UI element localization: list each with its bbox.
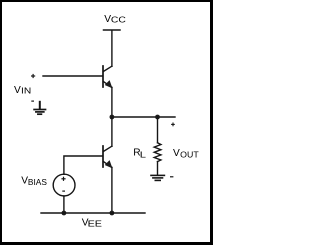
label VCC xyxy=(104,14,126,25)
label + (VOUT positive) xyxy=(171,123,175,127)
node junction RL top xyxy=(155,115,160,120)
wire VEE rail xyxy=(41,212,145,214)
label + (VIN positive) xyxy=(31,74,35,78)
wire Q2 emitter to VEE rail xyxy=(111,167,113,213)
wire output node to VOUT terminal xyxy=(112,116,175,118)
node junction Q1 emitter / Q2 collector xyxy=(110,115,115,120)
svg-text:IN: IN xyxy=(21,87,31,96)
transistor Q1 xyxy=(103,66,112,88)
label VEE xyxy=(82,218,102,229)
node junction VBIAS / VEE xyxy=(62,211,67,216)
svg-text:CC: CC xyxy=(111,15,126,24)
wire Q1 emitter to output node xyxy=(111,87,113,117)
svg-text:OUT: OUT xyxy=(180,151,199,160)
svg-text:L: L xyxy=(140,150,147,159)
ground (output, under RL) xyxy=(151,175,164,180)
node junction Q2 emitter / VEE xyxy=(110,211,115,216)
svg-text:V: V xyxy=(14,85,21,96)
power rail VCC bar xyxy=(104,29,121,31)
frame (decorative) xyxy=(0,0,213,2)
wire RL top lead xyxy=(157,117,159,143)
ground (input) xyxy=(34,102,45,114)
svg-text:BIAS: BIAS xyxy=(28,178,47,187)
label VOUT xyxy=(173,148,199,160)
transistor Q2 xyxy=(103,146,112,168)
resistor RL xyxy=(154,143,161,162)
label VIN xyxy=(14,85,31,96)
label - (VOUT negative) xyxy=(170,176,173,178)
svg-text:EE: EE xyxy=(88,220,102,229)
voltage source VBIAS xyxy=(53,174,75,196)
wire VBIAS positive to Q2 base xyxy=(64,156,102,174)
wire output node down to Q2 collector xyxy=(111,117,113,146)
wire VCC stem to Q1 collector xyxy=(111,31,113,66)
wire VBIAS negative to VEE rail xyxy=(63,196,65,213)
svg-text:V: V xyxy=(173,148,180,159)
wire VIN to Q1 base xyxy=(43,75,102,77)
label VBIAS xyxy=(21,175,47,187)
wire RL bottom lead xyxy=(157,162,159,175)
label RL xyxy=(133,147,147,159)
label - (VIN negative) xyxy=(31,100,34,102)
